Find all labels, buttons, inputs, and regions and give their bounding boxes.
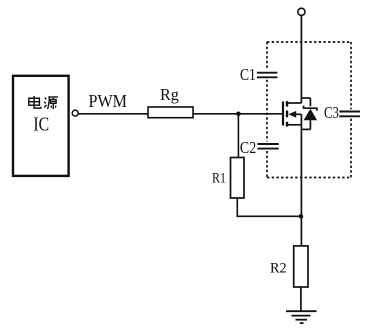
svg-text:Rg: Rg (160, 85, 179, 104)
svg-text:IC: IC (33, 113, 49, 135)
svg-text:R1: R1 (212, 169, 226, 186)
svg-text:C1: C1 (240, 66, 256, 85)
svg-text:C2: C2 (240, 139, 256, 158)
svg-text:R2: R2 (270, 260, 287, 276)
svg-text:C3: C3 (324, 104, 339, 122)
svg-text:PWM: PWM (89, 91, 127, 111)
